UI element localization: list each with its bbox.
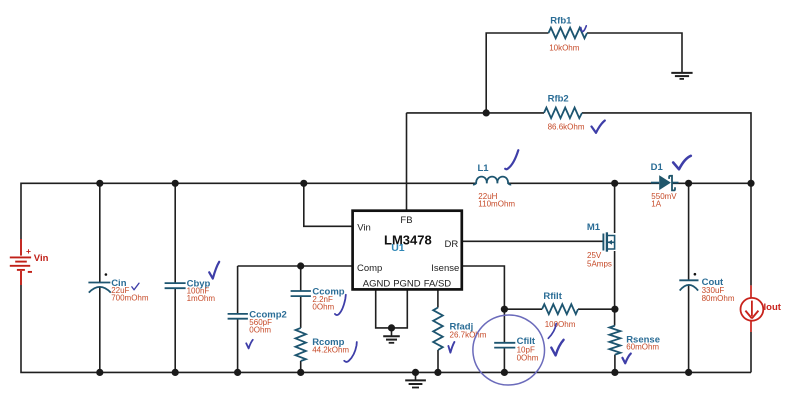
svg-text:86.6kOhm: 86.6kOhm xyxy=(548,123,585,132)
svg-text:Iout: Iout xyxy=(764,302,782,313)
svg-text:100Ohm: 100Ohm xyxy=(545,320,576,329)
svg-text:26.7kOhm: 26.7kOhm xyxy=(450,331,487,340)
svg-text:0Ohm: 0Ohm xyxy=(517,354,539,363)
svg-text:Comp: Comp xyxy=(357,263,382,274)
svg-text:Isense: Isense xyxy=(431,263,459,274)
svg-text:5Amps: 5Amps xyxy=(587,259,612,268)
svg-text:U1: U1 xyxy=(391,242,405,254)
svg-text:0Ohm: 0Ohm xyxy=(249,326,271,335)
svg-text:FB: FB xyxy=(400,215,412,226)
svg-text:DR: DR xyxy=(445,239,459,250)
svg-text:M1: M1 xyxy=(587,222,601,233)
svg-text:AGND: AGND xyxy=(363,278,391,289)
svg-text:1mOhm: 1mOhm xyxy=(187,294,216,303)
svg-text:Vin: Vin xyxy=(34,253,49,264)
svg-text:700mOhm: 700mOhm xyxy=(111,294,149,303)
svg-text:+: + xyxy=(26,246,31,256)
svg-text:80mOhm: 80mOhm xyxy=(702,294,735,303)
svg-text:110mOhm: 110mOhm xyxy=(478,199,515,208)
svg-text:FA/SD: FA/SD xyxy=(424,278,452,289)
svg-text:D1: D1 xyxy=(651,162,664,173)
svg-text:Vin: Vin xyxy=(357,223,371,234)
svg-text:Rfilt: Rfilt xyxy=(543,291,562,302)
svg-text:Rfb1: Rfb1 xyxy=(550,16,572,27)
svg-text:60mOhm: 60mOhm xyxy=(626,343,659,352)
svg-text:L1: L1 xyxy=(478,163,490,174)
svg-text:10kOhm: 10kOhm xyxy=(549,44,580,53)
svg-text:PGND: PGND xyxy=(393,278,421,289)
svg-text:0Ohm: 0Ohm xyxy=(312,302,334,311)
svg-text:1A: 1A xyxy=(651,200,661,209)
svg-text:44.2kOhm: 44.2kOhm xyxy=(312,346,349,355)
svg-text:Rfb2: Rfb2 xyxy=(548,94,569,105)
